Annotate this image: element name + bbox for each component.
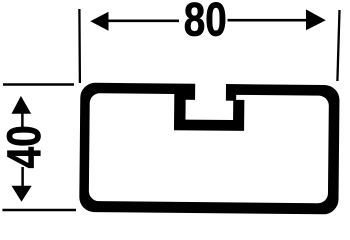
arrowhead down (40)	[12, 186, 32, 202]
extension line left (top dimension)	[78, 9, 81, 83]
dimension line 80 right segment	[228, 19, 308, 22]
svg-text:80: 80	[184, 0, 227, 46]
arrowhead right (80)	[306, 9, 326, 30]
extension line bottom (left dimension)	[2, 209, 76, 212]
svg-text:40: 40	[0, 125, 50, 168]
arrowhead left (80)	[90, 12, 108, 31]
dimension line 80 left segment	[106, 19, 179, 22]
extension line top (left dimension)	[3, 83, 74, 85]
dimension line 40 lower segment	[21, 167, 24, 186]
arrowhead up (40)	[12, 96, 32, 114]
profile cross-section outline (80x40 C-channel with top slot)	[79, 83, 339, 215]
dimension line 40 upper segment	[21, 112, 24, 127]
extension line right (top dimension)	[337, 10, 339, 81]
